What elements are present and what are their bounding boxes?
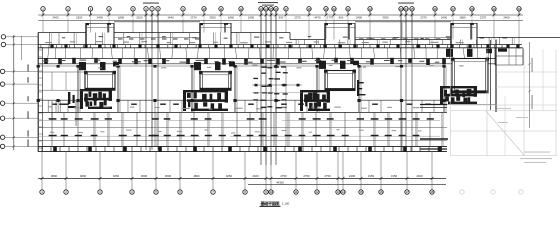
grid axis circle top 12 [239, 7, 243, 15]
small wall marks left of cluster 1 [68, 92, 76, 108]
rotated room dim text 1 [52, 100, 77, 126]
svg-text:16: 16 [379, 190, 383, 194]
svg-text:23: 23 [399, 7, 403, 11]
svg-text:1:100: 1:100 [282, 201, 290, 205]
svg-text:3300: 3300 [382, 16, 389, 20]
faint axis circle bottom 3 [519, 190, 523, 194]
svg-text:2400: 2400 [356, 16, 363, 20]
svg-text:2750: 2750 [303, 174, 310, 178]
grid axis circle top 9 [181, 7, 185, 15]
svg-text:18: 18 [307, 7, 311, 11]
right section lower walls [420, 105, 448, 150]
stair room 3 [319, 61, 359, 91]
grid axis circle top 5 [131, 7, 135, 15]
grid axis circle top 8 [156, 7, 160, 15]
svg-text:13: 13 [259, 7, 263, 11]
grid axis circle left 6 [0, 116, 38, 120]
beam text specks above rooms [98, 65, 463, 69]
svg-text:44300: 44300 [276, 181, 284, 185]
stair room 1 [79, 62, 119, 90]
bottom dimension text row [51, 174, 423, 178]
svg-text:10: 10 [202, 7, 206, 11]
svg-text:3600: 3600 [165, 174, 172, 178]
shear wall pocket cluster 2 [183, 90, 228, 111]
svg-text:1500: 1500 [76, 16, 83, 20]
top footing wall band [38, 44, 522, 48]
svg-text:2370: 2370 [294, 16, 301, 20]
svg-text:27: 27 [451, 7, 455, 11]
grid axis circle bottom 13 [336, 178, 340, 194]
grid axis circle bottom 2 [64, 178, 68, 194]
svg-text:2400: 2400 [52, 16, 59, 20]
svg-text:900: 900 [279, 16, 284, 20]
faint annex block outline [451, 50, 558, 164]
grid axis circle bottom 16 [379, 178, 383, 194]
svg-text:22: 22 [368, 7, 372, 11]
annex upper rooms [495, 48, 523, 65]
svg-text:4050: 4050 [113, 174, 120, 178]
building left wall [37, 33, 39, 152]
wall marks right of stair room 3 [357, 80, 365, 96]
bottom dimension ticks [41, 177, 434, 180]
grid axis circle bottom 10 [269, 178, 273, 194]
expansion joint lines mid [261, 11, 276, 165]
faint axis circle bottom 2 [491, 190, 495, 194]
svg-text:28: 28 [470, 7, 474, 11]
bottom dimension line [38, 177, 446, 179]
grid axis circle top 21 [346, 7, 350, 15]
grid axis circle top 19 [324, 7, 328, 15]
stair tower 4 shaft [451, 23, 478, 48]
svg-text:2400: 2400 [503, 16, 510, 20]
grid axis circle top 23 [399, 7, 403, 15]
svg-text:1860: 1860 [228, 16, 235, 20]
svg-text:30: 30 [517, 7, 521, 11]
top dimension tick marks [42, 14, 521, 17]
svg-text:2400: 2400 [441, 16, 448, 20]
grid axis circle top 14 [264, 7, 268, 15]
end unit room band [38, 72, 86, 90]
svg-text:3800: 3800 [51, 174, 58, 178]
svg-text:17: 17 [284, 7, 288, 11]
grid stems to building [43, 21, 519, 49]
svg-text:1860: 1860 [459, 16, 466, 20]
grid axis circle left 4 [0, 82, 38, 86]
grid axis circle top 30 [517, 7, 521, 15]
svg-text:11: 11 [295, 190, 298, 194]
grid axis circle top 29 [492, 7, 496, 15]
svg-text:2750: 2750 [324, 174, 331, 178]
grid axis circle top 16 [274, 7, 278, 15]
svg-text:4470: 4470 [314, 16, 321, 20]
faint axis circle bottom 1 [460, 190, 464, 194]
stair tower 1 shaft [86, 23, 115, 48]
svg-text:基础平面图: 基础平面图 [260, 200, 280, 206]
grid line x286 [285, 66, 287, 147]
grid axis circle bottom 1 [40, 178, 44, 194]
apartment unit 3 mid rooms [233, 65, 319, 112]
interior line y136 [38, 135, 440, 137]
svg-text:2370: 2370 [480, 16, 487, 20]
svg-text:4800: 4800 [80, 174, 87, 178]
grid axis circle top 2 [66, 7, 70, 15]
grid axis circle top 26 [433, 7, 437, 15]
bottom footing wall band [38, 146, 447, 152]
interior slab line y112 [38, 105, 496, 113]
svg-text:900: 900 [339, 16, 344, 20]
svg-text:2370: 2370 [420, 16, 427, 20]
apartment unit 1 mid rooms [37, 65, 80, 112]
svg-text:15: 15 [359, 190, 363, 194]
dim line connectors [43, 15, 519, 21]
column footing marks [49, 118, 434, 136]
grid axis circle top 17 [284, 7, 288, 15]
svg-text:3300: 3300 [209, 16, 216, 20]
shear wall pocket cluster 3 [300, 90, 330, 111]
svg-text:24: 24 [404, 7, 408, 11]
svg-text:16: 16 [274, 7, 278, 11]
stair room 4 [446, 49, 492, 93]
grid axis circle top 27 [451, 7, 455, 15]
grid axis circle top 20 [332, 7, 336, 15]
grid axis circle top 15 [269, 7, 273, 15]
grid axis circle left 8 [0, 144, 38, 148]
grid axis circle left 2 [1, 42, 38, 46]
bottom grid stems [42, 152, 432, 179]
grid axis circle bottom 8 [243, 178, 247, 194]
interior slab line y140 [38, 139, 447, 141]
grid axis circle bottom 18 [430, 178, 434, 194]
svg-text:4050: 4050 [226, 174, 233, 178]
svg-text:26: 26 [433, 7, 437, 11]
expansion joint beam markings [252, 66, 302, 108]
grid axis circle bottom 9 [264, 178, 268, 194]
building left wall inner [38, 47, 42, 152]
svg-text:21: 21 [346, 7, 350, 11]
grid axis circle bottom 6 [178, 178, 182, 194]
svg-text:3150: 3150 [391, 174, 398, 178]
upper band room walls [50, 33, 515, 45]
svg-text:12: 12 [239, 7, 243, 11]
grid axis circle bottom 15 [359, 178, 363, 194]
building right wall [495, 40, 497, 113]
upper corridor walls [48, 48, 489, 59]
svg-text:29: 29 [492, 7, 496, 11]
grid axis circle top 11 [219, 7, 223, 15]
svg-text:2400: 2400 [97, 16, 104, 20]
grid axis circle bottom 7 [211, 178, 215, 194]
top dimension line lower [38, 20, 523, 22]
svg-text:14: 14 [341, 190, 345, 194]
lower room walls [52, 112, 444, 146]
grid axis circle top 6 [144, 7, 148, 15]
svg-text:2750: 2750 [280, 174, 287, 178]
svg-text:14: 14 [264, 7, 268, 11]
svg-text:2100: 2100 [136, 16, 143, 20]
shear wall pocket cluster 1 [80, 89, 112, 109]
top dimension line upper [38, 14, 523, 16]
interior slab line y127 [38, 127, 447, 129]
grid axis circle left 5 [0, 101, 38, 105]
grid axis circle bottom 11 [294, 178, 298, 194]
beam label text row upper [45, 41, 464, 43]
svg-text:2400: 2400 [349, 174, 356, 178]
grid axis circle top 24 [404, 7, 408, 15]
grid axis circle bottom 12 [315, 178, 319, 194]
svg-text:1770: 1770 [327, 16, 334, 20]
grid axis circle top 22 [368, 7, 372, 15]
grid axis circle top 3 [88, 7, 92, 15]
building top outline (shoulder) [38, 33, 560, 40]
grid axis circle bottom 17 [405, 178, 409, 194]
title text [260, 200, 290, 207]
svg-text:19: 19 [324, 7, 328, 11]
stair tower 2 shaft [200, 23, 232, 48]
svg-text:13: 13 [336, 190, 340, 194]
apartment unit 2 mid rooms [116, 65, 194, 112]
shear wall pocket cluster 4 [440, 86, 477, 104]
room dimension specks [48, 106, 422, 133]
svg-text:3150: 3150 [368, 174, 375, 178]
svg-text:4800: 4800 [193, 174, 200, 178]
svg-text:2400: 2400 [416, 174, 423, 178]
grid axis circle top 13 [259, 7, 263, 15]
svg-text:3600: 3600 [141, 174, 148, 178]
cut lines left cluster [146, 11, 158, 150]
axis sublabels above clusters [143, 2, 414, 6]
interior line y120 [38, 120, 440, 122]
svg-text:17: 17 [405, 190, 409, 194]
svg-text:15: 15 [269, 7, 273, 11]
svg-text:12: 12 [315, 190, 319, 194]
grid axis circle top 4 [107, 7, 111, 15]
bottom overall dimension [248, 181, 446, 185]
grid axis circle top 25 [410, 7, 414, 15]
apartment unit 4 mid rooms [357, 65, 446, 112]
grid axis circle top 1 [41, 7, 45, 15]
svg-text:2370: 2370 [190, 16, 197, 20]
block terrace top lines [114, 22, 452, 40]
left rotated dimension text [28, 64, 29, 146]
svg-text:20: 20 [332, 7, 336, 11]
grid axis circle top 28 [470, 7, 474, 15]
grid axis circle bottom 5 [154, 178, 158, 194]
left vertical dimension line [13, 35, 15, 150]
grid axis circle top 7 [150, 7, 154, 15]
svg-text:11: 11 [220, 7, 223, 11]
stair room 2 [194, 62, 235, 90]
svg-text:1440: 1440 [167, 16, 174, 20]
svg-text:2400: 2400 [248, 16, 255, 20]
building right wall inner [490, 40, 492, 110]
grid axis circle left 3 [0, 69, 38, 73]
interior beam band with labels [38, 58, 496, 65]
grid axis circle left 7 [0, 135, 38, 139]
grid axis circle bottom 14 [341, 178, 345, 194]
expansion joint lines right [401, 11, 412, 152]
stair tower 3 shaft [325, 23, 356, 48]
svg-text:18: 18 [430, 190, 434, 194]
top dimension text row [52, 16, 510, 20]
svg-text:2400: 2400 [252, 174, 259, 178]
grid axis circle top 10 [202, 7, 206, 15]
svg-text:10: 10 [269, 190, 273, 194]
svg-text:25: 25 [410, 7, 414, 11]
grid axis circle bottom 3 [98, 178, 102, 194]
right vertical dimension line [528, 42, 532, 128]
svg-text:1800: 1800 [118, 16, 125, 20]
left dim line 2 [21, 36, 23, 60]
grid axis circle top 18 [307, 7, 311, 15]
grid axis circle left 1 [1, 35, 38, 39]
grid axis circle bottom 4 [130, 178, 134, 194]
